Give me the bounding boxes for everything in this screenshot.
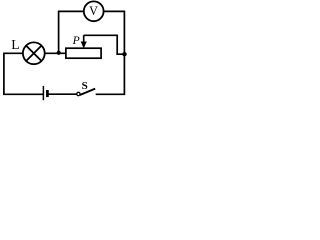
wire top-right and right side down to bottom-right (96, 11, 125, 94)
switch S pivot circle (77, 92, 80, 95)
junction dot right node (122, 52, 126, 56)
svg-text:P: P (72, 34, 80, 47)
svg-text:V: V (89, 4, 98, 18)
wire wiper to right branch (84, 35, 125, 54)
lamp L circle with cross (23, 42, 45, 64)
wire middle: lamp to rheostat (45, 52, 66, 54)
wire top-left: voltmeter to left branch vertical (59, 11, 85, 51)
switch S lever (80, 89, 95, 95)
battery B1 short plate (46, 90, 49, 97)
junction dot left node (57, 51, 61, 55)
rheostat wiper arrow (81, 35, 86, 47)
voltmeter U1 circle (84, 1, 104, 21)
wire middle-left + left side down to battery (4, 53, 43, 94)
svg-text:S: S (82, 80, 88, 92)
wire battery to switch (47, 93, 76, 95)
svg-text:L: L (11, 37, 19, 52)
rheostat P body (66, 48, 101, 58)
battery B1 long plate (42, 86, 44, 100)
